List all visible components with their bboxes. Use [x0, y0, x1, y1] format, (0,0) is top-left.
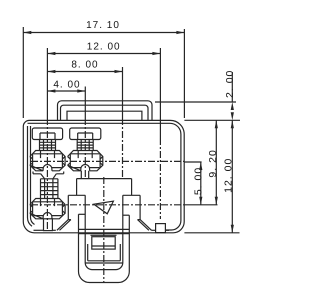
terminal T1 star cavity [30, 151, 65, 171]
centerline vertical slot A [122, 118, 124, 179]
svg-text:8. 00: 8. 00 [71, 59, 98, 70]
slot below T2 star [81, 171, 88, 179]
left chamfer near latch [57, 220, 71, 231]
svg-text:9. 20: 9. 20 [207, 149, 219, 177]
extension line x=47.4 solid part [46, 54, 48, 119]
cavity floor edge left [79, 213, 86, 215]
centerline vertical T1/T3 [46, 118, 48, 231]
cavity floor edge right [123, 214, 130, 216]
latch window [88, 244, 121, 261]
svg-text:5. 00: 5. 00 [193, 167, 205, 195]
central cavity outline [68, 179, 140, 220]
dimension 12.00 right [184, 120, 239, 233]
hood outer [58, 101, 153, 121]
extension line x=85.3 solid part [84, 91, 86, 118]
body outline outer [23, 120, 184, 232]
hood inner opening [67, 111, 142, 120]
centerline vertical T2 [84, 118, 86, 179]
centerline horizontal top row [31, 160, 184, 162]
terminal T3 stem [41, 179, 58, 199]
svg-text:2. 00: 2. 00 [224, 70, 236, 98]
svg-text:12. 00: 12. 00 [87, 41, 121, 52]
centerline vertical latch [103, 177, 105, 283]
extension line x=122.5 solid part [122, 72, 124, 119]
body inner bottom segments [34, 229, 44, 231]
centerline horizontal bottom row [31, 204, 184, 206]
hood mid line [61, 105, 149, 120]
latch catch block [91, 235, 117, 249]
terminal T2 star cavity [68, 151, 103, 171]
body inner wall left [27, 126, 32, 226]
dimension 17.10 top [23, 20, 184, 118]
latch top bars [79, 229, 130, 233]
terminal T1 stem [40, 140, 56, 151]
terminal T1 cap [32, 128, 62, 140]
latch outer strap [79, 214, 130, 282]
dimension 5.00 right [184, 162, 204, 205]
centerline vertical slot B [159, 138, 161, 219]
orientation triangle [94, 201, 114, 214]
svg-text:4. 00: 4. 00 [53, 79, 80, 90]
latch inner strap [85, 195, 123, 269]
pedestal below T3 [44, 219, 53, 231]
body inner wall top and right [28, 123, 181, 230]
right chamfer near latch [138, 220, 152, 231]
terminal T3 star cavity [30, 199, 65, 219]
terminal T2 cap [70, 128, 101, 140]
dimension 12.00 top [47, 41, 160, 55]
dimension 2.00 right [155, 70, 240, 121]
dimension 9.20 right [184, 120, 219, 205]
svg-text:17. 10: 17. 10 [86, 20, 120, 31]
dimension 8.00 top [47, 59, 122, 73]
terminal T3 funnel [33, 172, 64, 179]
dimension 4.00 top [47, 79, 85, 92]
terminal T2 stem [77, 140, 93, 151]
right square block [156, 224, 166, 233]
extension line x=160.4 solid part [159, 54, 161, 139]
